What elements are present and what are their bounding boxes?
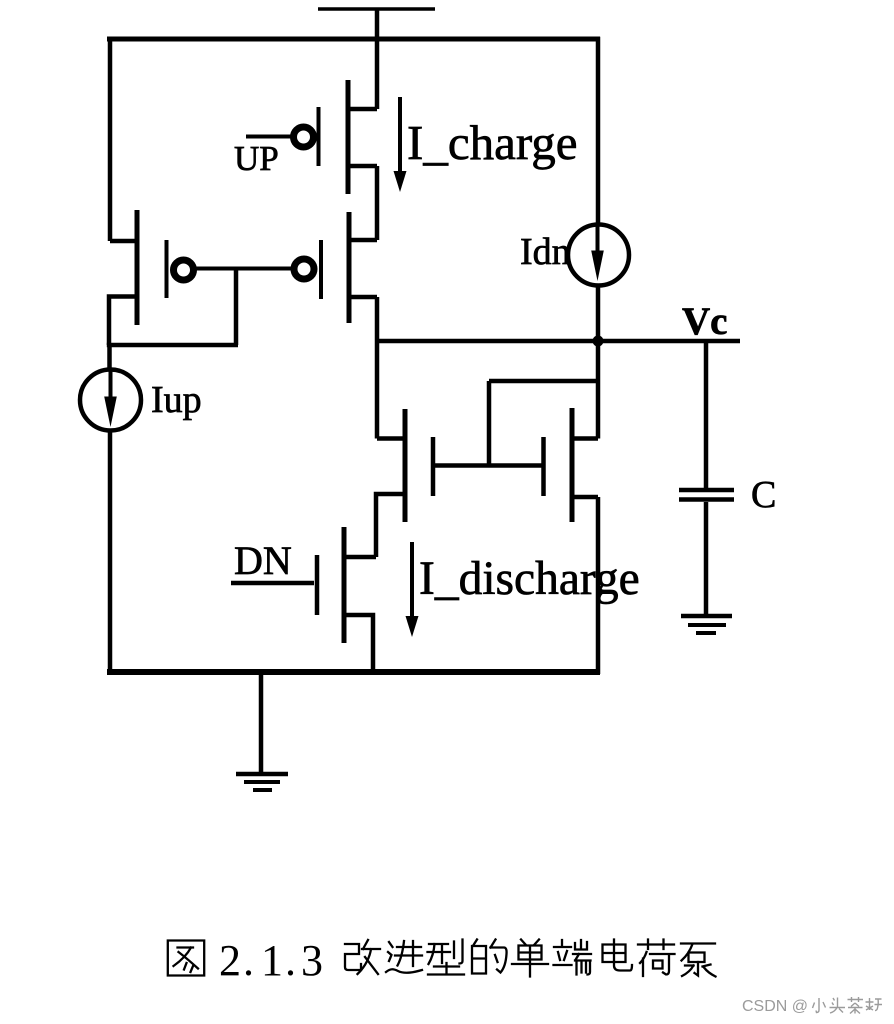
capacitor C bottom lead (704, 502, 709, 614)
transistor M3 drain lead (349, 295, 377, 300)
transistor M6 source lead + stem to rail (344, 615, 373, 674)
wire left rail lower (108, 432, 113, 675)
watermark CSDN (742, 997, 882, 1015)
svg-text:C: C (751, 474, 776, 516)
caption char DE (472, 940, 507, 974)
transistor M1 PMOS UP: channel (346, 80, 351, 194)
current source Iup arrow (104, 371, 117, 427)
transistor M6 drain lead (344, 555, 376, 560)
svg-text:DN: DN (234, 538, 292, 583)
wire right rail Vc to M5 drain (596, 341, 601, 439)
current source Idn arrow (591, 224, 604, 281)
transistor M1 gate bubble (294, 127, 314, 147)
wire diode node horizontal (107, 343, 238, 348)
caption char GAI (345, 940, 380, 974)
transistor M3 source lead (349, 238, 377, 243)
transistor M5 NMOS right mirror: gate bar (541, 437, 546, 496)
ground symbol capacitor (681, 616, 732, 633)
transistor M1 gate bar (317, 107, 321, 166)
svg-text:1: 1 (261, 936, 283, 985)
capacitor C top lead (704, 341, 709, 488)
wire Vc node horizontal (377, 339, 740, 344)
wire M2 drain to diode node (109, 297, 137, 346)
svg-text:I_charge: I_charge (407, 115, 578, 170)
svg-text:3: 3 (301, 936, 323, 985)
caption char DUAN (554, 940, 592, 975)
wire right rail upper (596, 37, 601, 223)
svg-text:Iup: Iup (151, 379, 202, 421)
caption char XING (428, 940, 465, 975)
wire M1 drain chain down to Vc node (375, 297, 380, 439)
transistor M2 gate bubble (174, 260, 194, 280)
transistor M1 source lead + stem to rail (348, 39, 377, 109)
caption char JIN (386, 941, 422, 973)
caption figure title (168, 940, 716, 977)
transistor M2 gate bar (165, 240, 169, 298)
transistor M5 drain lead (572, 436, 598, 441)
caption numbering 2.1.3 (219, 936, 323, 985)
watermark char TOU (830, 998, 846, 1014)
caption char TU (figure) (168, 941, 204, 976)
transistor M2 PMOS left: channel (135, 210, 140, 325)
capacitor C plates (679, 490, 734, 500)
transistor M5 source lead (572, 495, 598, 500)
power rail VDD symbol (318, 9, 435, 41)
wire left rail upper (108, 37, 113, 241)
caption char DAN (512, 940, 548, 977)
wire mirror gates (433, 463, 544, 468)
wire top rail (107, 37, 600, 42)
wire UP gate lead (246, 135, 293, 139)
wire ground stub (259, 672, 264, 774)
wire right rail M5 source to bottom (596, 497, 601, 674)
watermark char ZI (866, 998, 883, 1011)
svg-text:2: 2 (219, 936, 241, 985)
svg-text:Vc: Vc (682, 300, 727, 343)
wire into Iup (107, 343, 112, 371)
current arrow I_discharge (406, 542, 419, 637)
watermark char XIAO (813, 998, 826, 1013)
caption char DIAN (603, 940, 633, 971)
transistor M1 drain lead + stem down (348, 166, 377, 240)
junction dot at Vc (593, 336, 604, 347)
current source Idn circle (568, 225, 629, 286)
transistor M3 PMOS middle: gate bubble (294, 259, 314, 279)
wire Idn to Vc node (596, 287, 601, 341)
transistor M4 source lead + stem down to DN drain (376, 494, 405, 557)
ground symbol main (236, 774, 288, 790)
transistor M4 drain lead (377, 436, 405, 441)
transistor M3 channel (347, 212, 352, 323)
svg-text:.: . (243, 936, 254, 985)
caption char BENG (681, 944, 716, 977)
transistor M4 NMOS left mirror: channel (403, 409, 408, 522)
svg-text:.: . (285, 936, 296, 985)
transistor M6 NMOS DN: gate lead wire (231, 581, 314, 586)
wire bottom rail (107, 669, 600, 675)
transistor M2 source lead (110, 239, 137, 244)
transistor M5 channel (570, 408, 575, 522)
transistor M3 gate bar (319, 240, 323, 299)
transistor M6 gate bar (315, 555, 320, 615)
watermark char CAI (848, 997, 864, 1014)
caption char HE (638, 940, 675, 977)
svg-text:CSDN @: CSDN @ (742, 998, 808, 1015)
svg-text:UP: UP (234, 139, 279, 178)
transistor M6 channel (342, 527, 347, 643)
transistor M4 gate bar (431, 437, 436, 496)
current source Iup circle (80, 370, 141, 431)
wire gate sense branch (489, 381, 598, 466)
wire gate-to-gate M2/M3 (194, 267, 294, 271)
current arrow I_charge (394, 97, 407, 192)
svg-text:Idn: Idn (520, 231, 571, 273)
wire gate branch down (234, 268, 239, 345)
svg-text:I_discharge: I_discharge (419, 553, 640, 605)
